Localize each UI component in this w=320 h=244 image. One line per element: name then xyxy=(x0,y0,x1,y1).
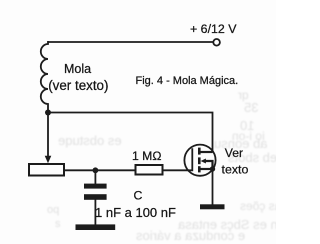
svg-text:texto: texto xyxy=(222,163,249,177)
svg-text:Mola: Mola xyxy=(64,62,91,76)
svg-text:(ver texto): (ver texto) xyxy=(48,78,108,93)
svg-text:Fig. 4 - Mola Mágica.: Fig. 4 - Mola Mágica. xyxy=(136,75,239,87)
svg-text:+ 6/12 V: + 6/12 V xyxy=(190,22,237,36)
svg-text:Ver: Ver xyxy=(225,146,243,160)
svg-text:C: C xyxy=(134,189,143,203)
svg-text:1 MΩ: 1 MΩ xyxy=(132,149,161,163)
svg-text:1 nF a 100 nF: 1 nF a 100 nF xyxy=(95,205,176,220)
